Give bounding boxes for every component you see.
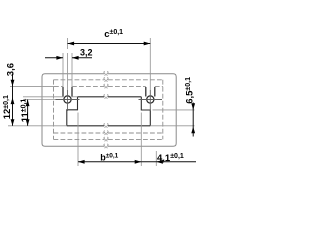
- svg-text:3,6: 3,6: [5, 63, 16, 76]
- svg-text:3,2: 3,2: [80, 47, 93, 57]
- svg-text:6,5±0,1: 6,5±0,1: [184, 77, 195, 104]
- svg-text:11±0,1: 11±0,1: [20, 99, 31, 123]
- svg-text:12±0,1: 12±0,1: [2, 95, 13, 119]
- svg-text:c±0,1: c±0,1: [104, 29, 123, 40]
- svg-text:b±0,1: b±0,1: [100, 152, 118, 162]
